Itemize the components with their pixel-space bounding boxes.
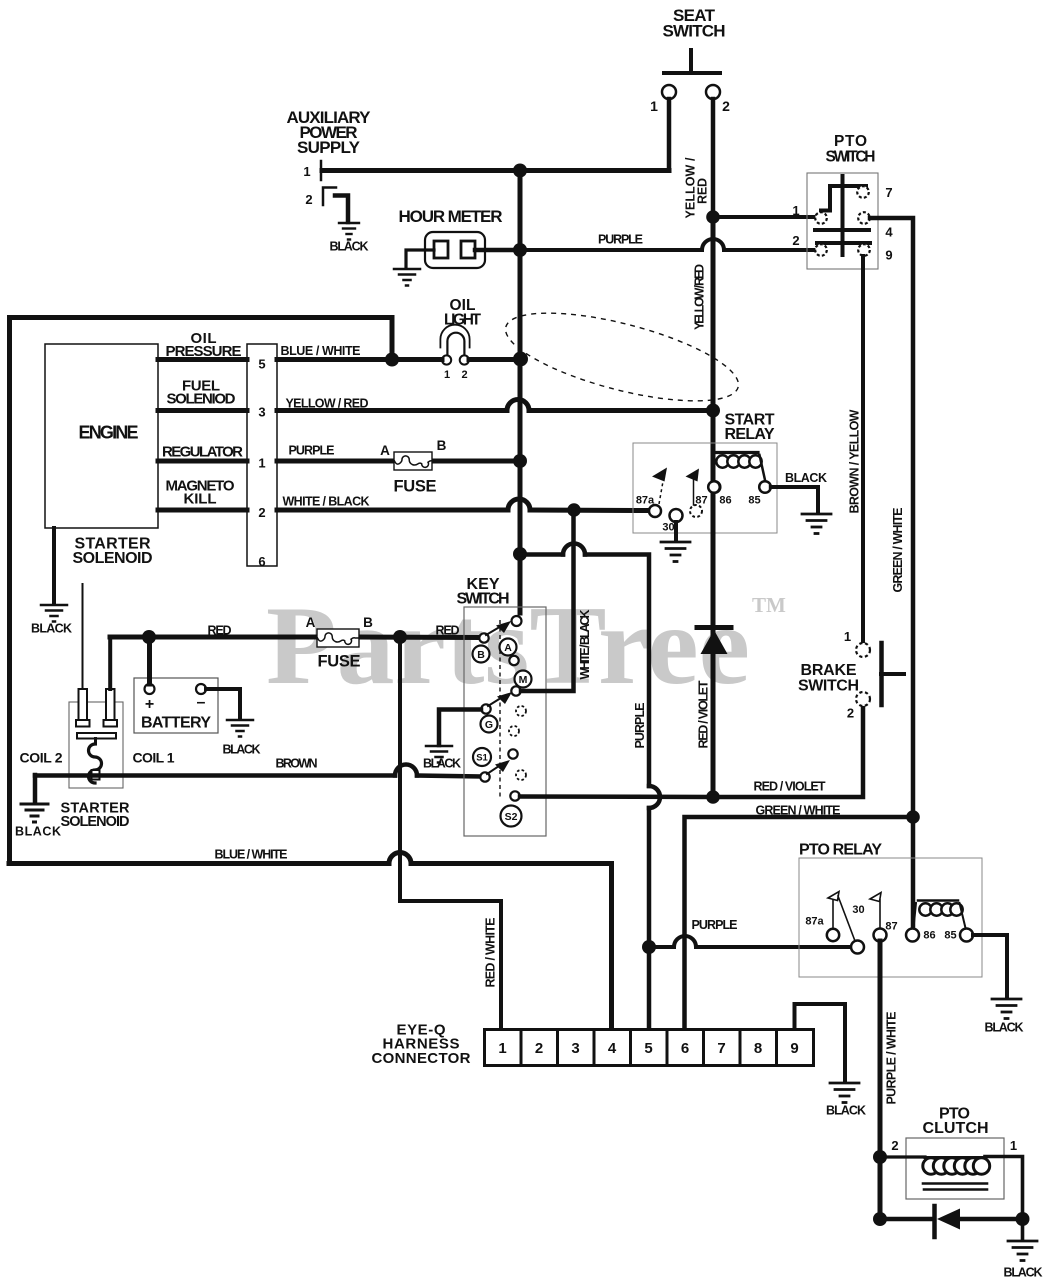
node junction x520 y250 — [513, 243, 527, 257]
svg-text:SWITCH: SWITCH — [798, 678, 859, 695]
key switch box — [464, 607, 546, 836]
svg-text:BLACK: BLACK — [330, 240, 369, 254]
wire regulator row pin1 PURPLE — [158, 459, 520, 464]
wire battery+ up to RED — [147, 637, 152, 684]
aux power supply pin1 bracket — [320, 161, 323, 180]
wire aux pin2 to ground — [335, 196, 348, 223]
wire start relay 30 to ground — [674, 522, 678, 541]
svg-text:A: A — [306, 615, 316, 630]
wire connector pin9 to ground — [795, 1004, 846, 1082]
wire into clutch coil — [880, 1155, 925, 1158]
wire solenoid coil2 to ground BROWN start — [33, 775, 38, 803]
svg-text:6: 6 — [681, 1040, 689, 1057]
node junction x713 y217 — [706, 210, 720, 224]
PTO switch terminal 7 — [857, 186, 869, 198]
label WHITE/BLACK vertical — [578, 610, 592, 680]
svg-text:B: B — [437, 438, 447, 453]
key switch ring M — [515, 671, 532, 688]
wire oil pressure row pin5 BLUE/WHITE — [158, 357, 442, 362]
wire solenoid contact to RED — [108, 637, 112, 689]
ground hour meter — [394, 269, 420, 286]
svg-text:COIL 1: COIL 1 — [133, 750, 175, 766]
key switch ring S1 — [473, 748, 491, 766]
svg-text:30: 30 — [852, 904, 864, 916]
ground PTO relay 85 — [992, 999, 1021, 1019]
svg-text:BROWN: BROWN — [276, 757, 318, 771]
wire clutch pin1 to ground — [985, 1157, 1023, 1241]
key switch S2 contact — [510, 791, 519, 800]
node junction x1022 y1219 — [1016, 1212, 1030, 1226]
PTO switch terminal 4 — [858, 212, 870, 224]
svg-text:1: 1 — [792, 203, 799, 218]
svg-text:8: 8 — [754, 1040, 762, 1057]
svg-text:SOLENIOD: SOLENIOD — [167, 391, 236, 408]
label YELLOW/RED vertical mid — [693, 264, 707, 330]
ground start relay 85 — [802, 514, 831, 534]
wire key G to ground — [439, 710, 481, 746]
PTO relay terminal 85 — [960, 929, 973, 942]
key switch top contact — [512, 616, 522, 626]
start relay terminal 87a — [649, 505, 661, 517]
PTO relay box — [799, 858, 982, 977]
key switch ring G — [481, 716, 498, 733]
svg-text:BLACK: BLACK — [31, 622, 72, 636]
PTO relay arm 30 diagonal — [838, 896, 855, 941]
start relay terminal 87 dashed — [690, 505, 702, 517]
svg-text:BROWN / YELLOW: BROWN / YELLOW — [848, 409, 862, 513]
battery - terminal — [196, 684, 206, 694]
brake switch terminal 1 dashed — [856, 643, 870, 657]
svg-text:RELAY: RELAY — [725, 426, 775, 443]
engine connector strip — [247, 344, 277, 566]
label RED/WHITE vertical — [484, 918, 498, 988]
svg-text:G: G — [485, 719, 493, 731]
svg-text:PRESSURE: PRESSURE — [166, 343, 242, 360]
start relay arm dashed + arrow — [659, 470, 665, 504]
svg-text:SOLENOID: SOLENOID — [73, 550, 153, 567]
svg-text:GREEN / WHITE: GREEN / WHITE — [891, 508, 905, 593]
wire yellow/red vertical x713 to start relay — [711, 217, 716, 455]
key switch ring S2 — [501, 806, 522, 827]
svg-text:2: 2 — [461, 369, 467, 381]
wire PTO pin9 down BROWN/YELLOW to brake switch pin1 — [861, 256, 865, 643]
svg-text:B: B — [363, 615, 373, 630]
ground aux supply — [339, 223, 359, 240]
PTO clutch core lines — [923, 1182, 987, 1185]
dashed harness ellipse — [498, 295, 747, 419]
key switch contact below A — [509, 656, 518, 665]
start relay terminal 86 — [709, 481, 721, 493]
svg-text:BLUE / WHITE: BLUE / WHITE — [281, 344, 361, 358]
svg-text:FUSE: FUSE — [394, 478, 437, 496]
svg-text:BLACK: BLACK — [423, 757, 461, 771]
svg-text:85: 85 — [944, 930, 956, 942]
label BROWN/YELLOW vertical — [848, 409, 862, 513]
wire BROWN to key switch S1 with hop over x400 — [35, 776, 480, 777]
svg-text:3: 3 — [571, 1040, 579, 1057]
svg-text:HOUR METER: HOUR METER — [399, 207, 503, 226]
svg-text:SOLENOID: SOLENOID — [61, 814, 130, 830]
svg-text:BLACK: BLACK — [785, 471, 827, 485]
svg-text:BLACK: BLACK — [826, 1104, 866, 1118]
key switch arm S1 arrow — [487, 764, 502, 774]
node junction green/white y817 — [906, 810, 920, 824]
svg-text:87: 87 — [885, 921, 897, 933]
svg-text:86: 86 — [719, 495, 731, 507]
node junction x880 y1219 — [873, 1212, 887, 1226]
node junction x520 y461 purple — [513, 454, 527, 468]
svg-text:RED: RED — [208, 624, 232, 638]
key switch dashed contact below G — [509, 726, 519, 736]
label YELLOW/RED vertical seat — [684, 157, 698, 219]
oil light lamp symbol — [440, 325, 469, 348]
key switch G arm contact — [481, 704, 490, 713]
wire fuel soleniod row pin3 YELLOW/RED with hop over x520 — [158, 408, 713, 413]
key switch ring A — [500, 639, 517, 656]
svg-text:LIGHT: LIGHT — [444, 312, 482, 329]
label PURPLE/WHITE vertical — [885, 1012, 899, 1105]
wire battery- to ground — [206, 689, 240, 719]
key switch dashed contact right of S1 arm — [516, 770, 526, 780]
ground coil2 — [21, 804, 48, 822]
wire PTO relay 85 to ground — [973, 935, 1007, 998]
ground PTO clutch — [1008, 1241, 1037, 1261]
PTO switch box — [807, 173, 878, 269]
PTO relay 87 stem + open arrow — [879, 900, 881, 928]
svg-text:BLACK: BLACK — [223, 743, 261, 757]
PTO relay coil — [919, 903, 962, 915]
svg-text:1: 1 — [303, 164, 310, 179]
svg-text:2: 2 — [847, 706, 854, 721]
wire RED/WHITE from x400 down to connector pin1 — [400, 637, 501, 1029]
svg-text:30: 30 — [662, 522, 674, 534]
node junction x392 y359 — [385, 353, 399, 367]
svg-text:SWITCH: SWITCH — [826, 149, 876, 166]
starter solenoid SOL1 symbol — [69, 702, 123, 788]
aux power supply pin2 bracket — [323, 188, 336, 206]
svg-text:87: 87 — [695, 495, 707, 507]
wire seat sw pin1 down — [667, 99, 672, 170]
node junction x649 y947 — [642, 940, 656, 954]
wire blue/white loop up-left-down around page — [10, 318, 393, 864]
svg-text:RED: RED — [436, 624, 460, 638]
PTO relay 87a stem + open arrow — [832, 899, 834, 928]
svg-text:RED / WHITE: RED / WHITE — [484, 918, 498, 988]
start relay terminal 85 — [759, 481, 771, 493]
start relay box — [633, 443, 777, 533]
start relay 87 stem + arrow — [693, 479, 695, 505]
wire magneto kill row pin2 WHITE/BLACK with hop over x520 — [158, 508, 649, 514]
svg-text:BATTERY: BATTERY — [141, 715, 211, 732]
svg-text:PURPLE: PURPLE — [289, 444, 335, 458]
wire hour meter left stub to ground — [406, 250, 434, 268]
svg-text:6: 6 — [258, 554, 265, 569]
svg-text:M: M — [519, 674, 528, 686]
svg-text:WHITE / BLACK: WHITE / BLACK — [578, 610, 592, 680]
svg-text:COIL 2: COIL 2 — [20, 750, 63, 766]
ground connector pin9 — [830, 1083, 859, 1103]
svg-text:1: 1 — [844, 629, 851, 644]
svg-text:2: 2 — [258, 505, 265, 520]
wire PTO relay 87 down PURPLE/WHITE to clutch — [878, 941, 883, 1219]
svg-text:YELLOW / RED: YELLOW / RED — [693, 264, 707, 330]
svg-text:+: + — [145, 696, 154, 713]
ground engine — [41, 605, 67, 622]
hour meter body — [425, 232, 485, 268]
key switch ring B — [473, 646, 490, 663]
svg-text:CLUTCH: CLUTCH — [923, 1120, 989, 1137]
PTO relay terminal 87a — [827, 929, 839, 941]
svg-text:REGULATOR: REGULATOR — [162, 444, 243, 461]
node junction x574 y510 — [567, 503, 581, 517]
seat switch SW1 symbol — [664, 50, 720, 73]
svg-text:1: 1 — [258, 456, 265, 471]
oil light terminal 1 — [442, 355, 451, 364]
svg-text:BLUE / WHITE: BLUE / WHITE — [215, 848, 288, 862]
svg-text:7: 7 — [717, 1040, 725, 1057]
svg-text:RED / VIOLET: RED / VIOLET — [754, 780, 826, 794]
brake switch terminal 2 dashed — [856, 692, 870, 706]
wire main vertical x520 from y170 to key switch — [518, 170, 523, 613]
wire starter solenoid label stem — [82, 584, 84, 689]
seat switch terminal 1 — [662, 85, 676, 99]
node junction battery+ x149 y637 — [142, 630, 156, 644]
svg-text:85: 85 — [748, 495, 760, 507]
svg-text:2: 2 — [792, 233, 799, 248]
key switch arm B->A arrow — [486, 625, 503, 635]
wire yellow/red through 86 down to diode and S2 node — [711, 455, 716, 797]
wire purple branch from x520 y554 right-down to connector pin5, hops over x573.5 and y797 — [520, 555, 649, 1030]
battery + terminal — [145, 684, 155, 694]
node junction x520 y554 purple branch — [513, 547, 527, 561]
key switch gang dashed line — [499, 620, 501, 798]
PTO clutch box — [906, 1138, 1004, 1199]
seat switch terminal 2 — [706, 85, 720, 99]
svg-text:A: A — [504, 642, 512, 654]
PTO switch terminal 2 — [815, 244, 827, 256]
wire start relay 85 to ground BLACK — [771, 487, 818, 513]
svg-text:B: B — [477, 649, 485, 661]
svg-text:2: 2 — [535, 1040, 543, 1057]
label PURPLE vertical — [633, 703, 647, 749]
svg-text:RED: RED — [696, 178, 710, 204]
key switch dashed contact right of G — [516, 706, 526, 716]
PTO relay terminal 30 — [851, 941, 864, 954]
svg-text:5: 5 — [644, 1040, 652, 1057]
wire GREEN/WHITE horizontal to connector pin6 — [685, 817, 914, 1029]
key switch S1 arm contact — [480, 772, 489, 781]
key switch B arm contact — [479, 633, 488, 642]
PTO relay terminal 86 — [906, 929, 919, 942]
ground battery — [227, 720, 253, 737]
svg-text:5: 5 — [258, 357, 265, 372]
diode D1 — [697, 625, 731, 630]
engine box — [45, 344, 158, 528]
wire BLUE/WHITE bottom row to connector pin4 with hop over x400 — [9, 864, 612, 1030]
svg-text:9: 9 — [885, 248, 892, 263]
svg-text:PURPLE: PURPLE — [598, 233, 643, 247]
svg-text:87a: 87a — [805, 916, 824, 928]
brake switch actuator — [879, 643, 884, 705]
svg-text:4: 4 — [885, 225, 893, 240]
svg-text:2: 2 — [891, 1138, 898, 1153]
svg-text:PURPLE / WHITE: PURPLE / WHITE — [885, 1012, 899, 1105]
svg-text:2: 2 — [305, 192, 312, 207]
ground key G — [426, 746, 452, 763]
key switch arm G arrow — [488, 696, 504, 706]
PTO switch terminal 9 — [858, 244, 870, 256]
start relay terminal 30 — [670, 509, 683, 522]
wire flyback diode row — [880, 1217, 1022, 1222]
svg-text:9: 9 — [790, 1040, 798, 1057]
svg-text:1: 1 — [444, 369, 450, 381]
svg-text:86: 86 — [923, 930, 935, 942]
fuse F2 red — [317, 629, 359, 647]
node junction x520 y170 — [513, 164, 527, 178]
svg-text:CONNECTOR: CONNECTOR — [372, 1050, 471, 1067]
node junction redwhite x400 y637 — [393, 630, 407, 644]
node junction x520 y359 oil light — [513, 352, 528, 367]
svg-text:1: 1 — [1010, 1138, 1017, 1153]
start relay terminal 86 redraw — [708, 481, 720, 493]
svg-text:–: – — [197, 694, 206, 711]
svg-text:A: A — [380, 443, 390, 458]
svg-text:1: 1 — [498, 1040, 506, 1057]
svg-text:S2: S2 — [505, 811, 518, 823]
svg-text:BLACK: BLACK — [1004, 1266, 1043, 1280]
key switch S1 target contact — [508, 749, 517, 758]
svg-text:GREEN / WHITE: GREEN / WHITE — [756, 804, 841, 818]
svg-text:RED / VIOLET: RED / VIOLET — [697, 680, 711, 748]
node junction x713 y410 start relay — [706, 404, 720, 418]
svg-text:BRAKE: BRAKE — [801, 662, 857, 679]
svg-text:S1: S1 — [476, 753, 488, 764]
svg-text:KILL: KILL — [184, 491, 217, 508]
wire engine ground — [52, 528, 56, 604]
svg-text:FUSE: FUSE — [318, 653, 361, 671]
svg-text:7: 7 — [885, 185, 892, 200]
PTO relay terminal 87 — [874, 929, 887, 942]
svg-text:3: 3 — [258, 405, 265, 420]
svg-text:PURPLE: PURPLE — [633, 703, 647, 749]
wire seat sw pin2 down YELLOW/RED — [711, 99, 716, 217]
PTO switch internal actuator — [815, 176, 870, 255]
oil light terminal 2 — [460, 355, 469, 364]
PTO switch terminal 1 — [815, 212, 827, 224]
svg-text:1: 1 — [650, 98, 658, 114]
wire PTO pin4 to green/white vertical — [870, 218, 913, 930]
fuse F1 purple — [394, 452, 432, 470]
EYE-Q harness connector — [485, 1030, 814, 1066]
wire hour meter to x520 PURPLE to PTO pin2 with hop over x713 — [475, 248, 520, 253]
start relay coil — [716, 455, 761, 467]
svg-text:TM: TM — [752, 593, 786, 617]
label RED/VIOLET vertical — [697, 680, 711, 748]
svg-text:ENGINE: ENGINE — [79, 423, 139, 443]
svg-text:PURPLE: PURPLE — [692, 918, 738, 932]
svg-text:SUPPLY: SUPPLY — [297, 138, 361, 157]
svg-text:PTO RELAY: PTO RELAY — [799, 842, 882, 859]
svg-text:WHITE / BLACK: WHITE / BLACK — [283, 495, 370, 509]
svg-text:4: 4 — [608, 1040, 617, 1057]
wire purple horizontal to PTO relay 30, hop over x684 — [649, 945, 851, 949]
key switch M contact — [511, 686, 520, 695]
svg-text:87a: 87a — [636, 495, 655, 507]
svg-text:SWITCH: SWITCH — [663, 22, 726, 41]
svg-text:BLACK: BLACK — [985, 1021, 1024, 1035]
svg-text:SWITCH: SWITCH — [457, 591, 510, 608]
wire pin1 PTO switch to yellow/red vertical — [713, 215, 815, 219]
svg-text:BLACK: BLACK — [15, 825, 61, 839]
node junction x880 y1157 — [873, 1150, 887, 1164]
wire RED battery row — [110, 635, 478, 641]
ground start relay 30 — [661, 542, 690, 562]
wire aux pin1 to seat switch pin1 — [322, 168, 669, 173]
wire key M to white/black vertical — [521, 510, 574, 691]
label GREEN/WHITE vertical — [891, 508, 905, 593]
wire oil light to main vertical — [469, 357, 520, 362]
solenoid coil squiggle — [89, 744, 102, 783]
svg-text:2: 2 — [722, 98, 730, 114]
battery B1 box — [134, 678, 218, 733]
svg-text:YELLOW / RED: YELLOW / RED — [286, 397, 369, 411]
wire RED/VIOLET to brake switch pin2 — [713, 706, 863, 797]
watermark PartsTree — [266, 584, 786, 708]
svg-text:PTO: PTO — [834, 133, 867, 150]
diode D2 — [932, 1206, 937, 1237]
wire key S2 to red/violet junction (purple hops over) — [520, 794, 713, 799]
node junction x713 y797 — [706, 790, 720, 804]
PTO clutch coil — [923, 1158, 990, 1174]
